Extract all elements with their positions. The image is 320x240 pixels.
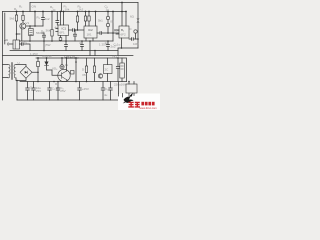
resistor R9 xyxy=(71,71,75,75)
svg-text:05: 05 xyxy=(110,20,114,24)
svg-text:2u2: 2u2 xyxy=(111,45,116,49)
transformer T1 secondary xyxy=(14,65,16,78)
svg-text:2n2: 2n2 xyxy=(45,17,50,21)
capacitor C7 xyxy=(129,38,138,41)
wire xyxy=(90,41,95,56)
wire bridge out xyxy=(32,58,38,82)
supply V+ rail xyxy=(36,57,126,59)
wire xyxy=(43,41,45,51)
resistor R12 xyxy=(94,58,96,82)
svg-text:www.dzsc.com: www.dzsc.com xyxy=(140,106,157,110)
wire xyxy=(75,58,77,82)
svg-text:1 25V: 1 25V xyxy=(30,52,38,56)
svg-text:25V: 25V xyxy=(36,89,41,93)
logo red character 2 xyxy=(135,102,140,108)
svg-text:ON: ON xyxy=(32,5,37,9)
capacitor C15 xyxy=(56,82,60,101)
capacitor C8 xyxy=(65,41,68,51)
capacitor C3 xyxy=(56,12,59,26)
wire secondary to bridge xyxy=(16,65,26,81)
resistor R5 xyxy=(77,12,79,31)
capacitor C17 xyxy=(101,82,105,101)
node dot xyxy=(121,2,123,4)
resistor R1 xyxy=(16,12,18,35)
capacitor C9 xyxy=(81,41,84,51)
svg-text:V1: V1 xyxy=(26,21,30,25)
zener VD2 xyxy=(61,58,63,65)
output transformer pins xyxy=(129,94,134,96)
filter capacitor C11 xyxy=(120,63,125,78)
pin wires IC3 xyxy=(125,12,127,27)
capacitor C16 xyxy=(78,82,82,101)
wire xyxy=(61,36,67,42)
svg-text:1k2: 1k2 xyxy=(79,8,84,12)
svg-text:1k: 1k xyxy=(53,8,57,12)
wire x122 xyxy=(121,3,123,27)
svg-text:VD₄: VD₄ xyxy=(52,67,58,71)
resistor R13 xyxy=(37,62,40,67)
logo red text xyxy=(141,102,144,106)
transformer T1 core xyxy=(11,63,12,80)
svg-text:5k6: 5k6 xyxy=(10,17,15,21)
emitter wire Q1 xyxy=(21,29,23,41)
svg-text:10k: 10k xyxy=(65,8,70,12)
output transformer box xyxy=(126,84,137,93)
logo backdrop xyxy=(118,94,160,111)
input jack CZ xyxy=(9,43,14,45)
right edge wire xyxy=(137,3,139,49)
rail V+ xyxy=(3,11,127,13)
speaker BL xyxy=(137,19,139,23)
transistor Q1 xyxy=(20,23,26,29)
capacitor C4 xyxy=(69,29,85,32)
wire xyxy=(16,81,18,101)
wires into IC3 xyxy=(115,30,120,34)
svg-text:Pb²: Pb² xyxy=(83,73,88,77)
capacitor C19 xyxy=(116,58,119,82)
svg-text:B₁: B₁ xyxy=(121,28,124,32)
node dot xyxy=(121,11,123,13)
wire xyxy=(17,34,21,41)
resistor R3 xyxy=(29,26,31,41)
wire xyxy=(118,82,120,94)
top rail xyxy=(30,2,138,4)
svg-text:36k: 36k xyxy=(46,29,51,33)
wire xyxy=(121,38,123,48)
capacitor C18 xyxy=(109,82,113,101)
capacitor C2 xyxy=(42,12,45,27)
capacitor C3 (electrolytic) xyxy=(42,33,45,41)
resistor R4 xyxy=(51,12,53,42)
wire into logo xyxy=(119,94,123,98)
svg-text:+25V: +25V xyxy=(82,87,89,91)
transformer T1 primary xyxy=(3,65,9,78)
svg-text:R₁: R₁ xyxy=(14,7,17,11)
svg-text:25V: 25V xyxy=(60,89,65,93)
svg-text:(5W: (5W xyxy=(45,43,51,47)
wire xyxy=(4,13,6,44)
capacitor C13 xyxy=(32,82,36,101)
logo red character 1 xyxy=(128,102,134,108)
capacitor C14 xyxy=(48,82,52,101)
left border wire xyxy=(2,12,4,101)
svg-text:181: 181 xyxy=(87,33,92,37)
wire xyxy=(61,3,63,12)
capacitor C10 xyxy=(107,41,110,51)
transistor V4 (power) xyxy=(58,69,70,81)
svg-text:C₁₀: C₁₀ xyxy=(105,87,110,91)
resistor on IC2 pin a xyxy=(84,16,86,21)
ground bottom rail xyxy=(17,99,122,101)
resistor on IC1 pin xyxy=(59,38,62,41)
power switch S1 xyxy=(13,40,20,49)
svg-text:4n: 4n xyxy=(79,41,83,45)
svg-text:5k1: 5k1 xyxy=(98,19,103,23)
svg-text:10k: 10k xyxy=(114,29,119,33)
svg-text:6F1: 6F1 xyxy=(60,31,66,35)
ground rail xyxy=(3,55,134,57)
wire xyxy=(122,58,127,82)
capacitor C6 (electrolytic) xyxy=(107,12,109,34)
resistor on IC2 pin b xyxy=(88,16,90,21)
wire xyxy=(86,38,93,41)
feedback rail xyxy=(10,50,118,52)
svg-text:220u16V: 220u16V xyxy=(114,83,126,87)
mid rail (ground bus) xyxy=(20,40,114,42)
wire xyxy=(26,25,43,27)
pin wires IC2 xyxy=(86,12,96,27)
op-amp IC2 xyxy=(84,26,97,38)
wire xyxy=(112,12,114,42)
svg-text:4u: 4u xyxy=(104,93,108,97)
capacitor C12 xyxy=(26,82,30,101)
regulator box xyxy=(104,65,113,74)
capacitor C13b xyxy=(73,30,76,41)
svg-text:6F2: 6F2 xyxy=(121,33,127,37)
bridge rectifier U xyxy=(20,66,32,78)
diode VD1 xyxy=(47,58,53,70)
node dot xyxy=(29,40,31,42)
svg-text:IC2: IC2 xyxy=(88,28,93,32)
capacitor C5 xyxy=(97,32,119,35)
wire xyxy=(118,48,138,56)
resistor R11 xyxy=(86,58,88,82)
svg-text:U: U xyxy=(18,61,20,65)
logo swallow icon xyxy=(123,97,134,104)
pin wires IC1 xyxy=(61,12,64,26)
svg-text:10R: 10R xyxy=(133,42,139,46)
supply bottom rail xyxy=(20,81,127,83)
transistor V5 xyxy=(98,74,102,78)
svg-text:D·: D· xyxy=(82,68,85,72)
op-amp IC1 xyxy=(58,25,69,36)
power amp IC3 xyxy=(119,26,129,38)
svg-text:1n: 1n xyxy=(105,41,109,45)
pin stubs IC1 left xyxy=(56,29,58,32)
wire xyxy=(34,12,36,27)
wire xyxy=(29,3,31,12)
resistor R2 xyxy=(22,12,24,24)
electrolytic C14 xyxy=(134,30,137,33)
capacitor C1 xyxy=(20,43,31,51)
